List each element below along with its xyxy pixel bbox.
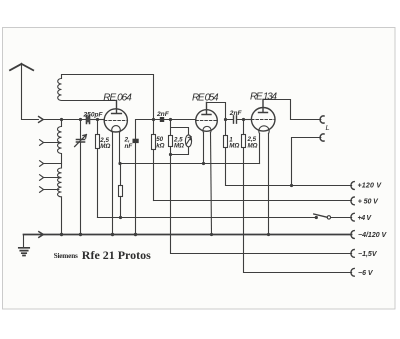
resistor R5 1 MΩ anode xyxy=(224,136,228,148)
jack plug on negative rail xyxy=(39,232,44,238)
filament of U3 xyxy=(259,126,269,134)
wire C2 to negative rail xyxy=(135,143,137,235)
wire varcap upper lead xyxy=(80,120,82,139)
wire junction to U2 grid xyxy=(171,119,196,121)
wire rail to filament resistor xyxy=(120,164,122,186)
antenna xyxy=(10,64,33,70)
wire +4V line xyxy=(98,217,317,219)
wire U1 filament left leg to negative rail xyxy=(112,132,114,234)
wire antenna down-lead xyxy=(22,64,39,120)
svg-text:RE 054: RE 054 xyxy=(192,93,219,104)
capacitor C2 2nF blocking xyxy=(133,139,139,143)
node varcap bottom on negative rail xyxy=(79,233,82,236)
node grid-2 junction xyxy=(169,118,172,121)
wire U1 filament right leg to cathode rail xyxy=(119,132,121,163)
filament of U1 xyxy=(112,126,121,133)
wire A2 down to R5 xyxy=(225,120,227,136)
jack terminal +120V xyxy=(351,182,354,190)
wire U3 anode to output jack xyxy=(263,100,321,120)
wire junction to U3 grid xyxy=(244,119,252,121)
jack tap 1 fork xyxy=(40,140,44,146)
capacitor C-var tuning xyxy=(77,140,85,143)
node grid-3 junction xyxy=(242,118,245,121)
wire R4 to -1,5V line xyxy=(171,155,352,254)
wire tap 4 xyxy=(44,189,59,191)
node C2 bottom on negative rail xyxy=(134,233,137,236)
svg-text:MΩ: MΩ xyxy=(100,143,110,150)
wire main grid line xyxy=(43,119,86,121)
svg-text:−6 V: −6 V xyxy=(358,270,374,277)
wire R1 to +4V line xyxy=(98,149,121,218)
grid of U1 (dashed) xyxy=(104,120,127,122)
wire junction A1 to blocking cap xyxy=(136,120,154,139)
wire tap 1 xyxy=(44,142,59,144)
wire U2 filament left leg to cathode rail xyxy=(203,133,205,164)
svg-text:−4/120 V: −4/120 V xyxy=(358,232,388,239)
svg-text:L: L xyxy=(326,123,330,132)
resistor R4 2,5 MΩ grid leak 2 xyxy=(169,136,173,147)
wire output return to +120V xyxy=(292,138,321,186)
lamp/adjuster E1 oval with arrow xyxy=(185,135,191,147)
svg-text:MΩ: MΩ xyxy=(248,142,258,149)
jack L output upper xyxy=(320,116,324,123)
jack terminal +4V xyxy=(351,213,354,221)
node varcap junction xyxy=(79,118,82,121)
wire U3 filament left leg to cathode rail end xyxy=(259,134,261,164)
capacitor C4 2nF coupling xyxy=(226,119,244,121)
anode of U3 xyxy=(259,100,268,113)
wire A1 down to R3 xyxy=(153,120,155,135)
jack tap 4 fork xyxy=(40,187,44,193)
wire R5 to +120V line xyxy=(226,148,352,186)
capacitor 250pF xyxy=(87,116,90,124)
node U2 filament on rail xyxy=(202,162,205,165)
jack terminal -4/120V xyxy=(351,231,354,239)
svg-text:250pF: 250pF xyxy=(83,112,104,119)
node grid-leak R1 junction xyxy=(96,118,99,121)
capacitor C3 2nF coupling xyxy=(154,119,171,121)
ground xyxy=(23,235,25,248)
wire +50V line xyxy=(154,200,352,202)
wire U3 filament right leg to negative rail xyxy=(268,134,270,235)
jack L output lower xyxy=(320,134,324,141)
filament of U2 xyxy=(203,126,211,132)
tube U3 RE134 envelope xyxy=(251,108,275,132)
svg-text:MΩ: MΩ xyxy=(229,143,239,150)
jack terminal -1,5V xyxy=(351,250,354,258)
wire tap 2 xyxy=(44,163,62,165)
wire varcap lower lead xyxy=(80,143,82,235)
wire R6 to -6V line xyxy=(244,148,352,273)
wire -4/120V negative rail xyxy=(24,234,352,236)
svg-text:+4 V: +4 V xyxy=(358,215,373,222)
svg-text:Rfe 21 Protos: Rfe 21 Protos xyxy=(82,248,151,262)
anode of U1 xyxy=(112,101,122,114)
wire U2 anode up and over xyxy=(207,103,226,120)
inductor L1 tuning coil xyxy=(57,120,61,235)
wire combo bottom connector xyxy=(171,147,189,155)
resistor R3 50 kΩ anode xyxy=(152,135,156,150)
node U3 filament right on negative rail xyxy=(267,233,270,236)
svg-text:RE 064: RE 064 xyxy=(103,93,132,104)
node U2 filament right on negative rail xyxy=(210,233,213,236)
switch S1 on +4V line xyxy=(315,216,318,219)
tube U2 RE054 envelope xyxy=(196,110,218,132)
inductor L2 feedback coil loop xyxy=(58,75,154,120)
node U1 filament left on negative rail xyxy=(111,233,114,236)
resistor R6 2,5 MΩ grid leak 3 xyxy=(242,135,246,148)
svg-text:+ 50 V: + 50 V xyxy=(358,199,379,206)
node coil bottom on negative rail xyxy=(60,233,63,236)
svg-text:+120 V: +120 V xyxy=(358,182,383,189)
jack antenna plug xyxy=(39,117,44,123)
node anode coupling junction A1 xyxy=(152,118,155,121)
arrow of variable capacitor xyxy=(75,135,87,147)
node coil top junction xyxy=(60,118,63,121)
svg-text:Siemens: Siemens xyxy=(54,251,79,260)
wire cathode rail xyxy=(120,163,260,165)
node anode coupling junction A2 xyxy=(224,118,227,121)
node R2 on +4V line xyxy=(119,216,122,219)
jack terminal -6V xyxy=(351,268,354,276)
jack tap 2 fork xyxy=(40,161,44,167)
svg-text:−1,5V: −1,5V xyxy=(358,251,378,258)
svg-text:nF: nF xyxy=(125,143,134,150)
node combo bottom xyxy=(169,153,172,156)
node output return on +120V line xyxy=(290,184,293,187)
grid of U3 (dashed) xyxy=(252,119,276,121)
wire U2 filament right leg to negative rail xyxy=(211,133,212,235)
wire grid-leak 3 top lead xyxy=(243,120,245,135)
anode of U2 xyxy=(202,103,211,115)
svg-text:2nF: 2nF xyxy=(156,111,170,118)
tube U1 RE064 envelope xyxy=(104,109,127,132)
wire R3 to +50V line xyxy=(153,150,155,201)
resistor R2 filament dropper xyxy=(119,186,123,197)
svg-text:kΩ: kΩ xyxy=(156,142,164,149)
wire grid-leak 2 top branch xyxy=(171,120,189,136)
wire tap 3 xyxy=(44,177,59,179)
jack tap 3 fork xyxy=(40,175,44,181)
jack terminal +50V xyxy=(351,197,354,205)
resistor R1 2,5 MΩ grid leak xyxy=(97,120,99,135)
svg-text:RE 134: RE 134 xyxy=(250,92,277,103)
wire R2 to +4V line xyxy=(120,197,122,218)
node filament/cathode rail start xyxy=(118,162,121,165)
wire cap to grid of U1 xyxy=(91,119,105,121)
svg-text:2nF: 2nF xyxy=(229,110,243,117)
grid of U2 (dashed) xyxy=(196,120,217,122)
svg-text:MΩ: MΩ xyxy=(174,143,184,150)
